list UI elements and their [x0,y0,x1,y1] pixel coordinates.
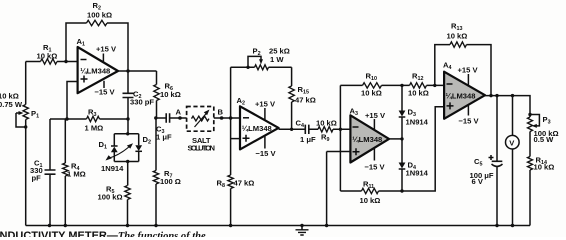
resistor R9 [316,119,337,144]
resistor R4 [63,119,86,226]
wire: R2 feedback top rail [66,23,128,71]
svg-text:10 kΩ: 10 kΩ [361,89,382,98]
svg-text:47 kΩ: 47 kΩ [295,96,316,105]
capacitor C4 [296,119,316,145]
capacitor C5 [470,96,503,226]
diode D3 [399,108,429,127]
node: R15 to output [290,128,293,131]
diode pair box top wire [114,119,138,136]
node B and line to A2 [214,108,240,120]
wire: feedback/R8 vertical branch [230,67,232,225]
svg-text:+15 V: +15 V [96,45,117,54]
resistor R15 [289,67,316,129]
wire: R3 line [50,118,128,120]
capacitor C3 and signal line to salt cell [156,113,187,141]
resistor R8 [217,175,255,189]
svg-text:10 kΩ: 10 kΩ [360,196,381,205]
node: R13/output junction [489,94,492,97]
svg-text:1 W: 1 W [270,55,284,64]
resistor R12 [408,72,429,98]
rail junction dots [48,224,514,227]
svg-text:100 Ω: 100 Ω [160,177,181,186]
capacitor C2 [123,71,155,119]
svg-text:−15 V: −15 V [365,163,386,172]
svg-text:pF: pF [32,174,42,183]
svg-text:0.75 W: 0.75 W [0,100,23,109]
wire: D3/D4 vertical [401,85,403,191]
diode D1 [99,134,118,162]
svg-text:10 kΩ: 10 kΩ [316,119,337,128]
wire: A4 output line [485,96,530,117]
svg-text:¼LM348: ¼LM348 [80,67,110,76]
wire: R10/R12 top rail [340,84,444,86]
wire: P3 to R14 [529,132,531,157]
svg-text:1N914: 1N914 [101,164,124,173]
resistor R11 [360,180,381,206]
wire: A1 output line [118,70,157,72]
salt solution dashed box [187,107,215,153]
op-amp A1 [77,37,119,97]
potentiometer P1 [0,92,39,129]
matched-pair annotation arrow [101,143,133,173]
svg-text:47 kΩ: 47 kΩ [234,179,255,188]
resistor R10 [361,72,382,98]
node: voltmeter branch junction [511,94,514,97]
op-amp A3 [350,107,390,172]
resistor R2 [87,1,113,26]
svg-text:0.5 W: 0.5 W [534,135,555,144]
diode D2 [135,134,151,162]
bottom ground rail [26,225,530,227]
resistor R13 [447,22,468,48]
potentiometer P2 [246,47,290,70]
svg-text:SOLUTION: SOLUTION [188,144,216,153]
wire: R11 bottom loop [340,107,444,191]
wire: P2 feedback rail [231,66,292,68]
svg-text:1N914: 1N914 [406,118,429,127]
node: D3 top junction [400,84,403,87]
svg-text:10 kΩ: 10 kΩ [37,52,58,61]
svg-text:100 kΩ: 100 kΩ [98,193,123,202]
node: C5 branch junction [495,94,498,97]
svg-text:1 μF: 1 μF [300,135,316,144]
svg-text:10 kΩ: 10 kΩ [447,32,468,41]
diode D4 [399,161,429,178]
svg-text:+15 V: +15 V [255,100,276,109]
node: R6/R7/C3 junction [154,116,157,119]
wire: A3 + input ground branch [326,152,328,226]
svg-text:¼LM348: ¼LM348 [242,124,272,133]
resistor R5 [98,185,131,226]
svg-text:1 MΩ: 1 MΩ [85,124,104,133]
potentiometer P3 [528,113,559,144]
node: D4/R11 junction [400,189,403,192]
svg-text:¼LM348: ¼LM348 [352,135,382,144]
svg-text:1 μF: 1 μF [156,133,172,142]
node: output/C2 junction [126,69,129,72]
svg-text:+15 V: +15 V [458,66,479,75]
resistor R1 [37,43,58,64]
svg-text:−15 V: −15 V [459,117,480,126]
node: + input / R4 junction [65,117,68,120]
svg-text:+15 V: +15 V [365,111,386,120]
op-amp A2 [237,96,279,158]
voltmeter V [506,96,520,226]
svg-text:1N914: 1N914 [406,169,429,178]
node: R12/R13 junction [433,84,436,87]
wire: R13 feedback rail [435,45,491,96]
svg-text:6 V: 6 V [472,177,484,186]
svg-text:100 kΩ: 100 kΩ [87,11,112,20]
wire: left branch down to P1 and ground rail [25,62,27,226]
op-amp A4 [443,61,485,126]
node: R1/R2 junction [64,60,67,63]
capacitor C1 [30,119,56,226]
resistor R3 [85,108,104,133]
node A [176,108,182,120]
resistor R14 [528,156,555,226]
diode pair box bottom wire [114,160,138,186]
wire: A3 input stubs [327,129,351,151]
svg-text:−15 V: −15 V [95,88,116,97]
wire: A2 output line [279,128,351,130]
node: R3/C2 junction [126,117,129,120]
wire: A2 noninverting input [231,138,240,140]
svg-text:¼LM348: ¼LM348 [446,92,476,101]
svg-text:CONDUCTIVITY METER—The functio: CONDUCTIVITY METER—The functions of the [0,230,206,237]
svg-text:1 MΩ: 1 MΩ [67,170,86,179]
wire: A3 inverting vertical branch [339,85,341,191]
ground [296,224,309,235]
svg-text:A: A [176,108,182,117]
resistor R6 [154,71,181,118]
svg-text:B: B [218,108,224,117]
svg-text:10 kΩ: 10 kΩ [408,89,429,98]
wire: A1 noninverting input to R3/R4 node [67,82,78,120]
svg-text:330 pF: 330 pF [130,98,154,107]
svg-text:10 kΩ: 10 kΩ [534,163,555,172]
resistor R7 [153,118,181,226]
svg-text:−15 V: −15 V [256,149,277,158]
wire: A3 output stub [389,137,404,140]
wire: input line to A1 inverting input [26,61,78,63]
node: A3 inverting node [339,128,342,131]
svg-text:10 kΩ: 10 kΩ [160,90,181,99]
